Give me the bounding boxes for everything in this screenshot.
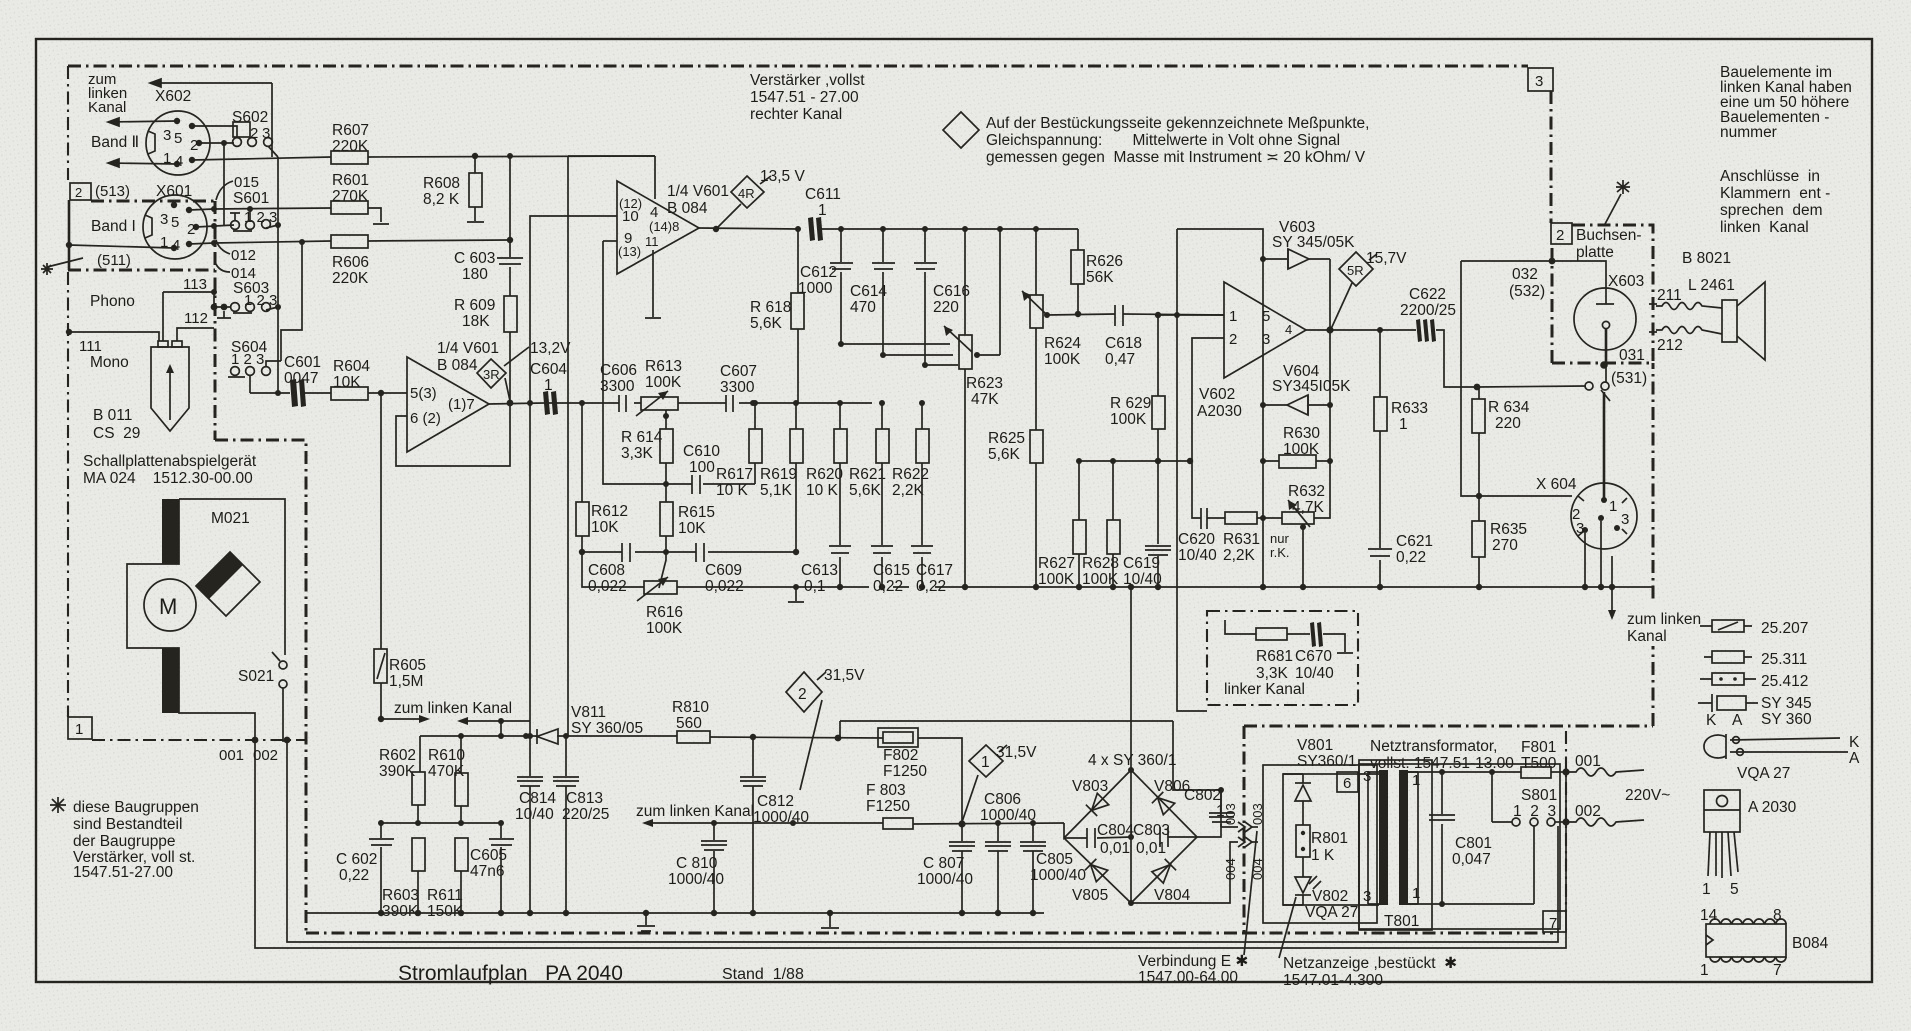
svg-text:CS 29: CS 29 [93, 425, 140, 442]
Band I sub-box right heavy vertical [214, 201, 217, 440]
svg-text:C621: C621 [1396, 533, 1433, 550]
wire pickup left terminal up [162, 292, 164, 341]
motor M circle [144, 579, 196, 631]
junctions on S601 row [211, 223, 217, 229]
measurement diamond 2 31,5V [786, 672, 822, 712]
resistor R606 220K [331, 235, 368, 248]
svg-text:R617: R617 [716, 466, 753, 483]
wire opamp1 feedback loop [396, 403, 510, 466]
svg-text:220/25: 220/25 [562, 806, 609, 823]
svg-text:R620: R620 [806, 466, 843, 483]
junction on pin2 wire [221, 140, 227, 146]
svg-text:031: 031 [1619, 347, 1645, 364]
measurement diamond 4R [731, 176, 764, 208]
svg-text:sind Bestandteil: sind Bestandteil [73, 816, 182, 833]
svg-text:0,22: 0,22 [339, 867, 369, 884]
svg-text:R632: R632 [1288, 483, 1325, 500]
svg-text:V602: V602 [1199, 386, 1235, 403]
svg-text:470K: 470K [428, 763, 465, 780]
resistor R681 3,3K [1225, 620, 1256, 634]
supply row y736 [420, 735, 537, 737]
svg-text:A: A [1732, 712, 1743, 729]
junction 001 [252, 737, 259, 744]
wire R624 wiper row [1047, 314, 1115, 315]
svg-text:0,22: 0,22 [916, 578, 946, 595]
wire X603 box top [1461, 260, 1552, 262]
svg-text:R606: R606 [332, 254, 369, 271]
svg-text:V811: V811 [571, 704, 606, 721]
legend resistor 25.207 [1700, 625, 1752, 627]
Buchsenplatte boundary vertical [1652, 363, 1655, 726]
wire S021 down to 002 junction [283, 688, 287, 741]
svg-text:6 (2): 6 (2) [410, 410, 441, 427]
svg-text:14: 14 [1700, 907, 1718, 924]
wire secondary bottom row [1408, 903, 1534, 905]
wire opamp2 pin4 supply [654, 156, 656, 199]
S603 common tick [217, 311, 231, 318]
svg-text:R601: R601 [332, 172, 369, 189]
wire X602 pin2 to S602 contact1 [199, 142, 234, 144]
svg-text:1: 1 [1700, 962, 1709, 979]
wire R601 right stub to ground tick [368, 208, 389, 224]
svg-text:015: 015 [234, 174, 259, 191]
ground rail mid [796, 586, 1652, 588]
svg-text:M: M [159, 594, 177, 619]
turntable module left dash-dot boundary [67, 66, 69, 180]
measurement diamond 1 31,5V [969, 745, 1003, 777]
svg-text:X602: X602 [155, 88, 191, 105]
svg-text:Netztransformator,: Netztransformator, [1370, 738, 1498, 755]
wire X603 center pin down [1605, 329, 1608, 364]
amplifier module boundary corner [215, 440, 306, 933]
svg-text:2: 2 [798, 686, 807, 703]
wire supply rail top [568, 155, 655, 157]
Netzanzeige inner box [1283, 774, 1359, 905]
svg-text:C612: C612 [800, 264, 837, 281]
svg-text:100K: 100K [1044, 351, 1081, 368]
svg-text:1000: 1000 [798, 280, 833, 297]
svg-text:C618: C618 [1105, 335, 1142, 352]
svg-text:C801: C801 [1455, 835, 1492, 852]
diamond dark segment [196, 552, 243, 599]
svg-text:1: 1 [1399, 416, 1408, 433]
svg-text:nummer: nummer [1720, 124, 1777, 141]
wire bridge positive riser [1130, 587, 1132, 770]
wire 212 wavy [1656, 327, 1722, 335]
wire vertical S601-3 down to C601 row [277, 157, 279, 393]
svg-text:R611: R611 [427, 887, 463, 904]
connector 004 [1131, 842, 1238, 903]
svg-text:0,1: 0,1 [804, 578, 826, 595]
svg-text:10/40: 10/40 [515, 806, 554, 823]
svg-text:1/4 V601: 1/4 V601 [437, 340, 499, 357]
svg-text:Verbindung E ✱: Verbindung E ✱ [1138, 953, 1248, 970]
svg-text:10K: 10K [333, 374, 361, 391]
svg-text:SY 360/05: SY 360/05 [571, 720, 643, 737]
power module top dash-dot [1244, 725, 1653, 728]
svg-text:8,2 K: 8,2 K [423, 191, 460, 208]
star note text (diese Baugruppen) [50, 797, 66, 813]
svg-text:C606: C606 [600, 362, 637, 379]
svg-text:10K: 10K [591, 519, 619, 536]
svg-text:T801: T801 [1384, 913, 1419, 930]
svg-text:560: 560 [676, 715, 702, 732]
svg-text:Gleichspannung: Mittelwe: Gleichspannung: Mittelwerte in Volt ohne… [986, 132, 1340, 149]
svg-text:C622: C622 [1409, 286, 1446, 303]
svg-text:220K: 220K [332, 138, 369, 155]
wire output box to X604 row [1461, 261, 1479, 496]
svg-text:M021: M021 [211, 510, 250, 527]
junction R607 row / R608 [472, 153, 478, 159]
svg-text:56K: 56K [1086, 269, 1114, 286]
switch contact (531) [1585, 382, 1593, 390]
svg-text:C 807: C 807 [923, 855, 964, 872]
svg-text:Stromlaufplan PA 2040: Stromlaufplan PA 2040 [398, 962, 623, 985]
bridge rectifier outline [1064, 770, 1197, 903]
ground rail bottom [306, 912, 1044, 914]
capacitor C670 10/40 [1287, 633, 1310, 635]
svg-text:R810: R810 [672, 699, 709, 716]
wire 112 row to pickup [181, 327, 214, 329]
svg-text:5: 5 [171, 214, 179, 231]
transformer frame box [1359, 760, 1432, 930]
SECTION-F output [988, 219, 1765, 770]
asterisk star left [41, 258, 83, 275]
svg-text:2: 2 [1229, 331, 1237, 348]
svg-text:10K: 10K [678, 520, 706, 537]
svg-text:rechter Kanal: rechter Kanal [750, 106, 842, 123]
svg-text:F802: F802 [883, 747, 918, 764]
svg-text:25.311: 25.311 [1761, 651, 1807, 668]
wire X602 pin5 to S602 [192, 126, 237, 138]
legend resistor 25.412 [1700, 678, 1756, 680]
supply box top edge [840, 720, 1173, 722]
wire Band II upper arrow [108, 118, 177, 126]
svg-text:002: 002 [253, 747, 278, 764]
node box 3 [1528, 68, 1553, 91]
transformer enclosure box [1359, 764, 1560, 929]
leader Netzanzeige [1279, 897, 1296, 958]
boundary right vertical below box 3 [1550, 91, 1553, 223]
junction at R613 wiper [663, 413, 669, 419]
wire pickup right terminal up [177, 328, 181, 341]
measurement diamond 3R [477, 359, 506, 388]
svg-text:C670: C670 [1295, 648, 1332, 665]
svg-text:SY 345/05K: SY 345/05K [1272, 234, 1355, 251]
svg-text:C615: C615 [873, 562, 910, 579]
svg-text:R612: R612 [591, 503, 628, 520]
node box 2 (513) [70, 183, 91, 200]
svg-text:Netzanzeige ,bestückt ✱: Netzanzeige ,bestückt ✱ [1283, 955, 1457, 972]
svg-text:390K: 390K [382, 903, 419, 920]
svg-text:R621: R621 [849, 466, 886, 483]
wire X602 pin4 to R607 [192, 157, 331, 160]
svg-text:113: 113 [183, 276, 207, 293]
svg-text:003: 003 [1223, 803, 1238, 825]
svg-text:Verstärker ,vollst: Verstärker ,vollst [750, 72, 865, 89]
svg-text:R604: R604 [333, 358, 370, 375]
wire junction down to S601 area [223, 143, 225, 225]
svg-text:F801: F801 [1521, 739, 1556, 756]
wire feedback riser x1177 [1176, 229, 1178, 315]
wire 001 long run [255, 741, 1566, 948]
legend resistor 25.311 [1704, 656, 1752, 658]
svg-text:10 K: 10 K [716, 482, 749, 499]
svg-text:SY360/1: SY360/1 [1297, 753, 1356, 770]
svg-text:1: 1 [1412, 885, 1420, 902]
svg-text:3: 3 [1576, 520, 1584, 537]
svg-text:1/4 V601: 1/4 V601 [667, 183, 729, 200]
svg-text:R623: R623 [966, 375, 1003, 392]
wire S604-2 to C601 row [249, 375, 251, 393]
svg-text:2200/25: 2200/25 [1400, 302, 1456, 319]
svg-text:C611: C611 [805, 186, 841, 203]
wire secondary top row [1408, 771, 1521, 773]
SECTION-G supply [306, 667, 1265, 931]
junction R607 row / C603 chain [507, 153, 513, 159]
wire primary bottom [1283, 904, 1379, 906]
wire S603 contact3 to vertical [266, 307, 278, 310]
loudspeaker symbol [1722, 300, 1737, 342]
svg-text:B 084: B 084 [437, 357, 478, 374]
svg-text:R602: R602 [379, 747, 416, 764]
Band I sub-box left heavy edge [68, 200, 71, 270]
svg-text:5,6K: 5,6K [750, 315, 783, 332]
svg-text:C613: C613 [801, 562, 838, 579]
svg-text:S801: S801 [1521, 787, 1557, 804]
node box 1 [68, 717, 92, 739]
svg-text:3: 3 [1363, 768, 1371, 785]
svg-text:270K: 270K [332, 188, 369, 205]
svg-text:001: 001 [219, 747, 244, 764]
turntable bottom dash-dot row 001/002 [92, 739, 307, 741]
Band I sub-box dash-dot bottom (511) row [68, 269, 215, 272]
svg-text:Anschlüsse in: Anschlüsse in [1720, 168, 1820, 185]
thick chassis bar upper [162, 499, 179, 564]
svg-text:Band Ⅱ: Band Ⅱ [91, 134, 139, 151]
svg-text:SY345I05K: SY345I05K [1272, 378, 1351, 395]
svg-text:gemessen gegen Masse mit Inst: gemessen gegen Masse mit Instrument ≍ 20… [986, 149, 1366, 166]
wire wiper R616 to node [659, 552, 666, 588]
wire arrow to left channel (top) [150, 79, 272, 157]
svg-text:4R: 4R [738, 186, 755, 201]
svg-text:220K: 220K [332, 270, 369, 287]
svg-text:R626: R626 [1086, 253, 1123, 270]
leader Verbindung E [1244, 831, 1257, 955]
svg-text:K: K [1849, 734, 1860, 751]
svg-text:F1250: F1250 [883, 763, 927, 780]
svg-text:zum linken: zum linken [1627, 611, 1701, 628]
svg-text:2,2K: 2,2K [1223, 547, 1256, 564]
turntable module left dash-dot boundary lower [67, 272, 69, 717]
svg-text:R607: R607 [332, 122, 369, 139]
svg-text:MA 024 1512.30-00.00: MA 024 1512.30-00.00 [83, 470, 253, 487]
svg-text:SY 345: SY 345 [1761, 695, 1812, 712]
svg-text:zum linken Kanal: zum linken Kanal [394, 700, 512, 717]
svg-text:Klammern ent -: Klammern ent - [1720, 185, 1830, 202]
svg-text:1: 1 [1229, 308, 1237, 325]
svg-text:47K: 47K [971, 391, 999, 408]
svg-text:5,6K: 5,6K [849, 482, 882, 499]
connector 003 [1221, 790, 1238, 827]
svg-text:4: 4 [172, 237, 180, 254]
wire 113 row to pickup [163, 292, 214, 307]
svg-text:B 084: B 084 [667, 200, 708, 217]
svg-text:platte: platte [1576, 244, 1614, 261]
legend LED VQA27 [1704, 735, 1726, 758]
svg-text:4: 4 [1285, 322, 1292, 337]
wire 002 long run [287, 741, 1558, 942]
svg-text:1000/40: 1000/40 [917, 871, 973, 888]
wire (511) row [69, 245, 174, 248]
svg-text:13,2V: 13,2V [530, 340, 571, 357]
svg-text:linker Kanal: linker Kanal [1224, 681, 1305, 698]
wire bridge center verticals [1130, 770, 1132, 903]
junction [211, 206, 217, 212]
svg-text:X 604: X 604 [1536, 476, 1577, 493]
svg-text:1547.51 - 27.00: 1547.51 - 27.00 [750, 89, 859, 106]
label zum linken Kanal (X604) [1646, 602, 1664, 646]
transformer winding wires [1368, 772, 1418, 904]
svg-text:1: 1 [818, 202, 827, 219]
wire row 461 [1079, 460, 1190, 462]
svg-text:5: 5 [1730, 881, 1739, 898]
svg-text:R624: R624 [1044, 335, 1081, 352]
leader 014 [215, 262, 230, 272]
svg-text:Mono: Mono [90, 354, 129, 371]
SECTION-C left input [50, 71, 331, 881]
svg-text:R633: R633 [1391, 400, 1428, 417]
svg-text:1547.00-64.00: 1547.00-64.00 [1138, 969, 1238, 986]
svg-text:100K: 100K [1110, 411, 1147, 428]
Band I sub-box dash-dot top [91, 200, 215, 203]
power module left dash-dot [1243, 726, 1246, 933]
svg-text:R627: R627 [1038, 555, 1075, 572]
transformer primary winding [1379, 770, 1388, 905]
svg-text:25.412: 25.412 [1761, 673, 1808, 690]
SECTION-I legend [750, 64, 1860, 979]
svg-text:(513): (513) [95, 183, 130, 200]
svg-text:Kanal: Kanal [1627, 628, 1667, 645]
tone bus rows [841, 343, 950, 345]
svg-text:zum linken Kanal: zum linken Kanal [636, 803, 754, 820]
row y823 [381, 822, 501, 824]
svg-text:31,5V: 31,5V [996, 744, 1037, 761]
diode V801 [1295, 785, 1311, 801]
inner solid rect bottom lines (001/002 mains runs) [255, 741, 1566, 948]
svg-text:der Baugruppe: der Baugruppe [73, 833, 176, 850]
svg-text:C607: C607 [720, 363, 757, 380]
svg-text:220: 220 [1495, 415, 1521, 432]
svg-text:VQA 27: VQA 27 [1305, 904, 1358, 921]
svg-text:012: 012 [231, 247, 256, 264]
svg-text:390K: 390K [379, 763, 416, 780]
svg-text:1000/40: 1000/40 [753, 809, 809, 826]
node box 7 [1543, 911, 1566, 932]
wire opamp2 output [699, 228, 1078, 229]
svg-text:270: 270 [1492, 537, 1518, 554]
svg-text:Buchsen-: Buchsen- [1576, 227, 1641, 244]
svg-text:K: K [1706, 712, 1717, 729]
svg-text:R631: R631 [1223, 531, 1260, 548]
svg-text:0,01: 0,01 [1136, 840, 1166, 857]
svg-text:1 K: 1 K [1311, 847, 1335, 864]
wire X604 pins to ground [1585, 521, 1601, 587]
svg-text:A 2030: A 2030 [1748, 799, 1797, 816]
svg-text:R 614: R 614 [621, 429, 663, 446]
wire branch down [500, 721, 502, 736]
wire R623 top to rail [964, 229, 966, 329]
svg-text:10/40: 10/40 [1178, 547, 1217, 564]
svg-text:C813: C813 [566, 790, 603, 807]
svg-text:B 011: B 011 [93, 407, 132, 424]
svg-text:R619: R619 [760, 466, 797, 483]
wire vertical x302 R606 branch [281, 242, 302, 361]
svg-text:212: 212 [1657, 337, 1683, 354]
svg-text:R608: R608 [423, 175, 460, 192]
wire V603 net right vertical [1329, 259, 1331, 461]
wire S603 row [214, 306, 231, 308]
svg-text:5R: 5R [1347, 263, 1364, 278]
svg-text:R603: R603 [382, 887, 419, 904]
thick chassis bar lower [162, 648, 179, 713]
svg-text:SY 360: SY 360 [1761, 711, 1812, 728]
svg-text:Band I: Band I [91, 218, 136, 235]
svg-text:3300: 3300 [720, 379, 755, 396]
motor frame [179, 499, 285, 655]
wire X601 pin2 to S601 [196, 225, 234, 227]
svg-text:4 x SY 360/1: 4 x SY 360/1 [1088, 752, 1176, 769]
svg-text:3: 3 [160, 211, 168, 228]
svg-text:2,2K: 2,2K [892, 482, 925, 499]
svg-text:R615: R615 [678, 504, 715, 521]
svg-text:nur: nur [1270, 531, 1289, 546]
svg-text:R 634: R 634 [1488, 399, 1530, 416]
svg-text:C619: C619 [1123, 555, 1160, 572]
svg-text:5: 5 [174, 130, 182, 147]
svg-text:Schallplattenabspielgerät: Schallplattenabspielgerät [83, 453, 257, 470]
node box 6 [1337, 772, 1358, 792]
svg-text:C 603: C 603 [454, 250, 495, 267]
svg-text:X603: X603 [1608, 273, 1644, 290]
svg-text:2: 2 [1556, 227, 1564, 244]
pickup B011 CS29 [151, 347, 189, 431]
linker Kanal dash-dot box [1207, 611, 1358, 705]
svg-text:(511): (511) [97, 252, 131, 269]
svg-text:032: 032 [1512, 266, 1538, 283]
measurement diamond 5R [1339, 252, 1373, 286]
svg-text:R616: R616 [646, 604, 683, 621]
svg-text:1000/40: 1000/40 [1030, 867, 1086, 884]
star at Buchsenplatte [1605, 180, 1630, 224]
svg-text:C608: C608 [588, 562, 625, 579]
svg-text:V803: V803 [1072, 778, 1108, 795]
wire pin11 ground stub [645, 250, 661, 318]
wire X604 pin1 bold up to contact [1603, 392, 1606, 502]
svg-text:C604: C604 [530, 361, 567, 378]
svg-text:112: 112 [184, 310, 208, 327]
svg-text:5,6K: 5,6K [988, 446, 1021, 463]
svg-text:1,5M: 1,5M [389, 673, 423, 690]
svg-text:100K: 100K [645, 374, 682, 391]
wire S602 contact3 to R607 row [268, 146, 278, 157]
svg-text:R622: R622 [892, 466, 929, 483]
svg-text:1000/40: 1000/40 [980, 807, 1036, 824]
svg-text:0,22: 0,22 [1396, 549, 1426, 566]
wire C622 to switch jog [1436, 330, 1586, 387]
svg-text:V802: V802 [1312, 888, 1348, 905]
svg-text:1: 1 [1609, 498, 1617, 515]
